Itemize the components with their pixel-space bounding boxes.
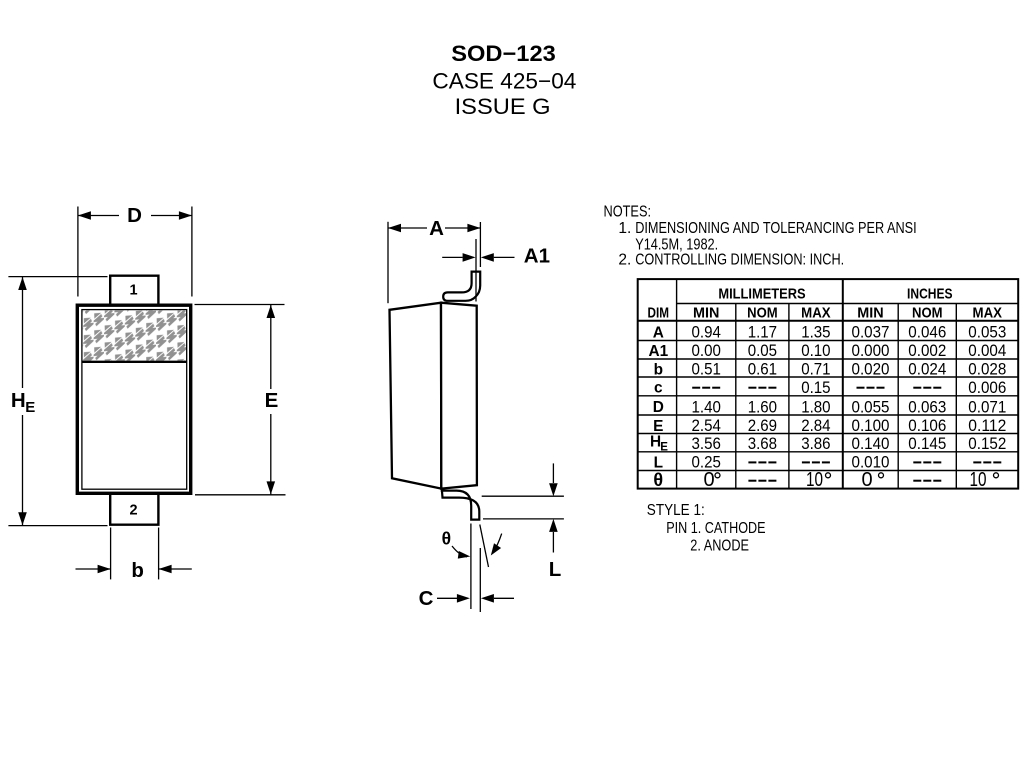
svg-text:A: A: [653, 325, 664, 342]
svg-text:θ: θ: [442, 529, 451, 549]
bottom lead (gull wing down): [442, 489, 480, 520]
svg-text:1.: 1.: [618, 220, 631, 237]
theta angle dimension: [452, 524, 502, 613]
svg-text:2.: 2.: [618, 252, 631, 269]
cathode band hatch: [83, 310, 186, 360]
dimension A1: [442, 239, 514, 302]
package body side: [390, 303, 477, 489]
pin 2 tab: [110, 495, 158, 525]
svg-text:3.68: 3.68: [748, 435, 777, 453]
svg-text:3.86: 3.86: [801, 435, 830, 453]
svg-text:0.028: 0.028: [968, 361, 1006, 379]
svg-text:MIN: MIN: [857, 305, 883, 322]
svg-text:1.60: 1.60: [748, 398, 777, 416]
svg-text:0.61: 0.61: [748, 361, 777, 379]
top lead (gull wing up): [443, 272, 480, 301]
svg-text:3.56: 3.56: [692, 435, 721, 453]
svg-text:1.40: 1.40: [692, 398, 721, 416]
svg-text:H: H: [11, 389, 26, 412]
svg-text:PIN 1. CATHODE: PIN 1. CATHODE: [666, 520, 765, 537]
svg-text:C: C: [419, 587, 434, 610]
svg-text:0.006: 0.006: [968, 379, 1006, 397]
svg-text:0.100: 0.100: [852, 417, 890, 435]
svg-text:2: 2: [129, 502, 137, 518]
svg-text:CONTROLLING DIMENSION: INCH.: CONTROLLING DIMENSION: INCH.: [635, 252, 844, 269]
cathode band bottom line: [82, 361, 187, 363]
svg-text:0.000: 0.000: [852, 342, 890, 360]
svg-text:0.71: 0.71: [801, 361, 830, 379]
svg-text:MAX: MAX: [973, 305, 1003, 322]
theta arc left: [452, 546, 467, 557]
svg-text:0.145: 0.145: [908, 435, 946, 453]
dimension D: [78, 207, 192, 297]
svg-text:0.51: 0.51: [692, 361, 721, 379]
svg-text:STYLE 1:: STYLE 1:: [647, 502, 705, 519]
outer border: [638, 279, 1019, 489]
svg-text:1.17: 1.17: [748, 324, 777, 342]
dimension E: [195, 305, 286, 495]
svg-text:A1: A1: [524, 245, 550, 268]
right C extension line: [479, 548, 481, 612]
slanted lead-plane line: [480, 525, 489, 568]
svg-text:0: 0: [703, 469, 714, 491]
svg-text:0.152: 0.152: [968, 435, 1006, 453]
pin 1 tab: [110, 276, 158, 304]
svg-text:D: D: [127, 204, 142, 227]
svg-text:MILLIMETERS: MILLIMETERS: [718, 285, 805, 302]
row lines: [677, 303, 1019, 305]
svg-text:0.140: 0.140: [852, 435, 890, 453]
svg-text:NOM: NOM: [747, 305, 778, 322]
svg-text:2.54: 2.54: [692, 417, 721, 435]
svg-text:DIMENSIONING AND TOLERANCING P: DIMENSIONING AND TOLERANCING PER ANSI: [635, 220, 917, 237]
svg-text:DIM: DIM: [648, 305, 670, 322]
svg-text:b: b: [131, 559, 144, 582]
svg-text:0.106: 0.106: [908, 417, 946, 435]
svg-text:L: L: [549, 558, 562, 581]
svg-text:θ: θ: [653, 470, 663, 490]
svg-text:1.35: 1.35: [801, 324, 830, 342]
svg-text:0.024: 0.024: [908, 361, 946, 379]
svg-text:MAX: MAX: [801, 305, 831, 322]
svg-text:0.071: 0.071: [968, 398, 1006, 416]
svg-text:0.037: 0.037: [852, 324, 890, 342]
svg-text:0.112: 0.112: [968, 417, 1006, 435]
svg-text:E: E: [660, 441, 668, 453]
vertical reference line: [470, 524, 472, 610]
svg-text:0: 0: [861, 469, 872, 491]
svg-text:0.046: 0.046: [908, 324, 946, 342]
svg-text:0.002: 0.002: [908, 342, 946, 360]
svg-text:0.05: 0.05: [748, 342, 777, 360]
svg-text:2. ANODE: 2. ANODE: [690, 538, 749, 555]
degree symbols in theta row: [715, 473, 999, 478]
theta row values (larger digits): [703, 469, 986, 491]
svg-text:2.69: 2.69: [748, 417, 777, 435]
svg-text:MIN: MIN: [693, 305, 719, 322]
svg-text:SOD−123: SOD−123: [451, 41, 556, 66]
svg-text:0.063: 0.063: [908, 398, 946, 416]
svg-text:A1: A1: [648, 343, 668, 360]
svg-text:CASE 425−04: CASE 425−04: [432, 68, 576, 93]
svg-text:NOM: NOM: [912, 305, 943, 322]
svg-text:NOTES:: NOTES:: [604, 204, 652, 221]
svg-text:0.053: 0.053: [968, 324, 1006, 342]
svg-text:A: A: [429, 217, 444, 240]
svg-text:c: c: [654, 380, 663, 397]
svg-text:b: b: [654, 361, 663, 378]
svg-text:D: D: [653, 399, 664, 416]
svg-text:2.84: 2.84: [801, 417, 830, 435]
theta arc right: [494, 534, 502, 552]
svg-text:L: L: [654, 454, 663, 471]
svg-text:0.020: 0.020: [852, 361, 890, 379]
dimension C: [437, 597, 514, 599]
dimension HE: [8, 277, 107, 526]
svg-text:0.004: 0.004: [968, 342, 1006, 360]
svg-text:0.00: 0.00: [692, 342, 721, 360]
dimension L: [482, 463, 564, 552]
dimension b: [76, 528, 192, 580]
svg-text:0.94: 0.94: [692, 324, 721, 342]
svg-text:1: 1: [129, 282, 137, 298]
svg-text:ISSUE G: ISSUE G: [455, 94, 551, 119]
svg-text:1.80: 1.80: [801, 398, 830, 416]
body outline (thick): [77, 305, 190, 493]
body inner line (thin): [82, 310, 187, 490]
svg-text:10: 10: [970, 469, 987, 491]
svg-text:E: E: [653, 418, 663, 435]
svg-text:0.055: 0.055: [852, 398, 890, 416]
svg-text:E: E: [265, 389, 279, 412]
svg-text:INCHES: INCHES: [907, 285, 953, 302]
dimension A: [388, 222, 480, 303]
svg-text:0.15: 0.15: [801, 379, 830, 397]
column lines: [676, 279, 678, 489]
svg-text:10: 10: [806, 469, 823, 491]
svg-text:0.10: 0.10: [801, 342, 830, 360]
svg-text:E: E: [25, 399, 35, 416]
